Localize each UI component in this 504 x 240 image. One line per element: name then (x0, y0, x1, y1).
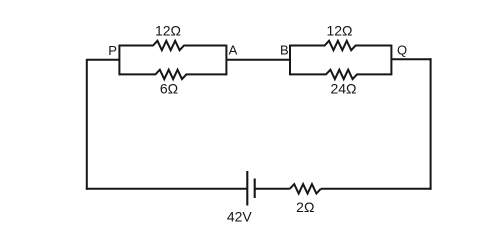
wire bottom left segment (86, 188, 247, 190)
svg-text:6Ω: 6Ω (160, 81, 178, 97)
resistor 24Ω bottom-right branch with leads (290, 70, 391, 79)
wire battery to resistor 2Ω (255, 188, 290, 190)
wire node A to node B (226, 59, 290, 61)
wire right rail vertical (430, 58, 432, 190)
right parallel block: left edge (node B side) (289, 45, 291, 76)
resistor 12Ω top-right branch with leads (290, 41, 391, 50)
svg-text:12Ω: 12Ω (155, 23, 181, 39)
svg-text:24Ω: 24Ω (330, 81, 356, 97)
svg-text:42V: 42V (227, 209, 253, 225)
svg-text:12Ω: 12Ω (326, 23, 352, 39)
svg-text:A: A (229, 43, 238, 58)
svg-text:Q: Q (397, 43, 407, 58)
svg-text:2Ω: 2Ω (296, 199, 314, 215)
battery 42V long plate (246, 171, 248, 206)
resistor 12Ω top-left branch with leads (119, 41, 226, 50)
resistor 6Ω bottom-left branch with leads (119, 70, 226, 79)
left parallel block: left edge (node P side) (118, 45, 120, 76)
svg-text:P: P (108, 43, 117, 58)
resistor 2Ω (290, 184, 321, 193)
svg-text:B: B (280, 43, 289, 58)
wire bottom right segment (321, 188, 432, 190)
left parallel block: right edge (node A side) (225, 45, 227, 76)
battery 42V short plate (254, 179, 256, 199)
right parallel block: right edge (node Q side) (390, 45, 392, 76)
wire left rail vertical (86, 59, 88, 190)
wire P lead (left block to left rail) (87, 59, 120, 61)
wire Q lead (right rail to right block) (391, 58, 431, 60)
